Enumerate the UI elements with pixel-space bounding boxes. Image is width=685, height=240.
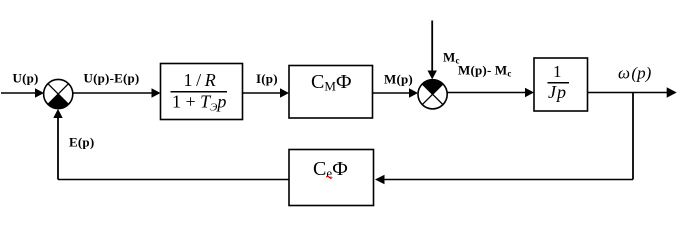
svg-text:1 / R: 1 / R [184,70,216,90]
wire CeФ to E(p) vertical [53,109,289,180]
svg-text:U(p): U(p) [13,71,39,86]
svg-text:U(p)-E(p): U(p)-E(p) [84,71,140,86]
svg-text:M(p): M(p) [384,72,413,87]
summing junction S1 [44,79,73,108]
wire CMФ to S2 [373,88,419,97]
block U3 1/Jp [534,58,588,111]
svg-text:I(p): I(p) [256,71,278,86]
svg-text:M(p)- Mc: M(p)- Mc [458,63,512,79]
wire S2 to block 1/Jp [447,88,534,97]
wire Mc input from top [428,21,437,80]
svg-text:Jp: Jp [548,82,567,102]
block U4 CeФ [289,150,374,206]
block U2 CMФ [289,66,373,119]
svg-text:1: 1 [553,62,562,81]
block W1 transfer function 1/R over 1+TЭp [161,64,243,120]
wire feedback to CeФ [375,175,633,184]
wire feedback branch down [632,93,634,180]
svg-text:1 + TЭp: 1 + TЭp [172,92,226,114]
wire output ω(p) [588,87,677,97]
wire input U(p) [1,88,44,97]
spellcheck squiggle under e [326,176,332,178]
svg-text:E(p): E(p) [69,135,94,150]
wire S1 to block W1 [73,88,161,97]
svg-text:ω (p): ω (p) [618,63,652,82]
summing junction S2 [418,80,447,109]
wire W1 to block CMФ [243,88,290,97]
